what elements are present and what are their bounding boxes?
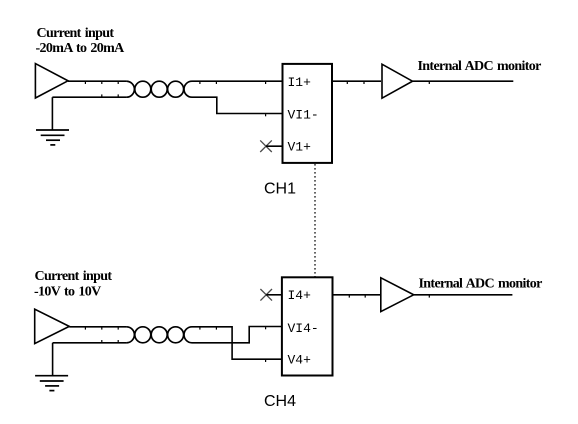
- wire vertex dots (CH1 output): [347, 82, 429, 84]
- svg-text:Internal ADC monitor: Internal ADC monitor: [418, 59, 542, 74]
- twisted pair coil T2: [126, 327, 192, 343]
- wire: twisted pair top conductor to pin V4+ (crossover down): [192, 327, 282, 359]
- svg-text:VI1-: VI1-: [288, 108, 319, 123]
- svg-text:-10V to 10V: -10V to 10V: [34, 284, 101, 299]
- svg-text:Current input: Current input: [35, 269, 113, 284]
- wire: box output to ADC buffer (CH1): [332, 80, 381, 82]
- svg-text:VI4-: VI4-: [288, 321, 319, 336]
- label: Current input -20mA to 20mA: [36, 26, 126, 56]
- svg-text:I4+: I4+: [288, 288, 312, 303]
- no-connect X on pin I4+: [260, 289, 272, 301]
- wire: twisted pair bottom conductor to pin VI4- (crossover up): [192, 327, 282, 343]
- svg-text:-20mA to 20mA: -20mA to 20mA: [36, 41, 126, 56]
- svg-text:Current input: Current input: [37, 26, 115, 41]
- svg-text:V4+: V4+: [288, 353, 312, 368]
- wire: A3 output to twisted pair (top conductor): [69, 326, 126, 328]
- wire: ground leg to twisted pair (bottom conductor): [52, 96, 126, 98]
- svg-text:CH1: CH1: [264, 181, 296, 198]
- twisted pair coil T1: [126, 81, 192, 97]
- wire: box output to ADC buffer (CH4): [333, 294, 381, 296]
- wire: twisted pair to pin I1+: [192, 80, 283, 82]
- wire: ground drop from bottom conductor: [51, 97, 53, 130]
- wire: X to pin V1+: [266, 145, 283, 147]
- buffer amplifier A1 (input, CH1): [35, 64, 68, 98]
- wire: X to pin I4+: [266, 294, 282, 296]
- wire: ground leg to twisted pair (bottom conductor): [53, 342, 127, 344]
- no-connect X on pin V1+: [260, 140, 272, 152]
- module box CH1: [283, 64, 333, 163]
- wire vertex dots (CH4 output): [349, 295, 429, 297]
- ground (CH1 input): [36, 130, 69, 145]
- buffer amplifier A4 (ADC monitor, CH4): [381, 278, 414, 312]
- wire: ADC monitor output line (CH1): [413, 80, 514, 82]
- wire: twisted pair to pin VI1- (with jog): [192, 97, 283, 113]
- module box CH4: [282, 277, 333, 375]
- wire: A1 output to twisted pair (top conductor): [68, 80, 126, 82]
- svg-text:V1+: V1+: [288, 139, 312, 154]
- label: Current input -10V to 10V: [34, 269, 112, 299]
- wire: ground drop from bottom conductor: [52, 343, 54, 376]
- wire: ADC monitor output line (CH4): [414, 294, 513, 296]
- buffer amplifier A2 (ADC monitor, CH1): [382, 64, 413, 98]
- svg-text:I1+: I1+: [288, 75, 312, 90]
- svg-text:CH4: CH4: [264, 393, 296, 410]
- buffer amplifier A3 (input, CH4): [35, 309, 70, 343]
- wire vertex dots (CH4 input pair): [85, 327, 265, 362]
- wire vertex dots (CH1 input pair): [85, 82, 265, 117]
- svg-text:Internal ADC monitor: Internal ADC monitor: [419, 277, 543, 292]
- ground (CH4 input): [35, 376, 68, 391]
- dotted interconnect between CH1 and CH4: [314, 164, 316, 277]
